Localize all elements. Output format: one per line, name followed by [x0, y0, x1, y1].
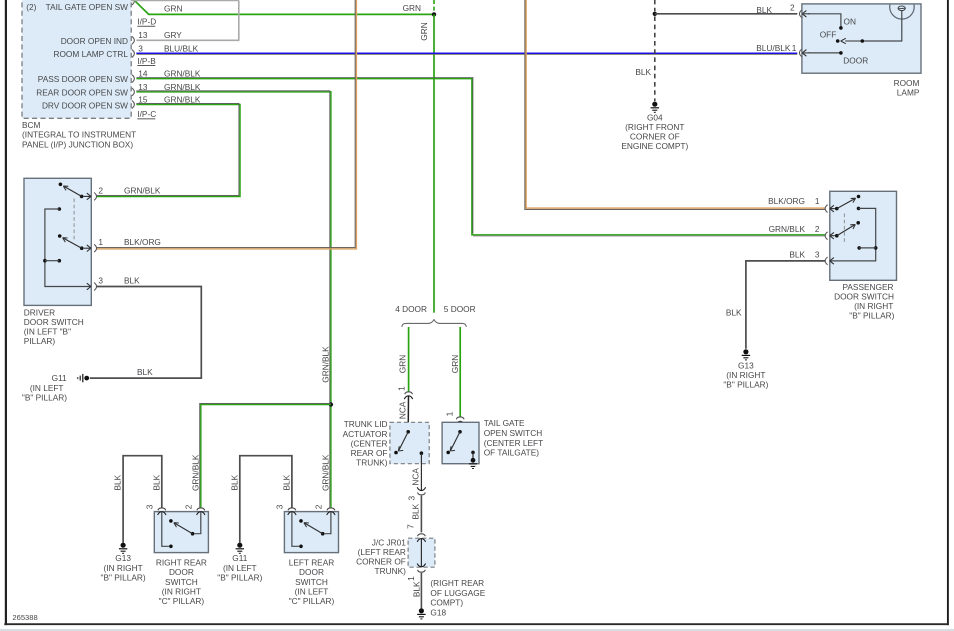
svg-text:3: 3	[815, 249, 820, 259]
svg-text:LAMP: LAMP	[897, 87, 920, 97]
TAIL GATE OPEN SWITCH box	[442, 418, 543, 463]
left rear switch internals	[292, 512, 331, 548]
svg-text:BLU/BLK: BLU/BLK	[756, 43, 791, 53]
svg-text:GRN: GRN	[419, 22, 429, 40]
svg-text:BLK: BLK	[113, 474, 123, 490]
svg-text:BLK/ORG: BLK/ORG	[124, 237, 161, 247]
svg-text:2: 2	[815, 224, 820, 234]
svg-text:OPEN SWITCH: OPEN SWITCH	[484, 428, 543, 438]
svg-text:(IN LEFT: (IN LEFT	[30, 383, 64, 393]
svg-text:GRN: GRN	[403, 3, 421, 13]
svg-text:2: 2	[314, 504, 324, 509]
svg-text:1: 1	[98, 237, 103, 247]
RIGHT REAR DOOR SWITCH box	[154, 512, 208, 606]
svg-text:LEFT REAR: LEFT REAR	[289, 558, 335, 568]
wire GRN right branch (5 door) to tail gate open switch	[450, 327, 460, 417]
BCM pin 13 socket (REAR DOOR OPEN SW)	[132, 82, 201, 96]
wire GRN junction down to 4/5 door brace	[419, 14, 434, 312]
svg-text:1: 1	[406, 576, 416, 581]
svg-text:(IN RIGHT: (IN RIGHT	[854, 301, 893, 311]
svg-text:4 DOOR: 4 DOOR	[395, 304, 427, 314]
svg-text:I/P-D: I/P-D	[137, 17, 156, 27]
passenger switch pole 1: contacts and arm	[835, 195, 860, 211]
svg-text:2: 2	[184, 504, 194, 509]
svg-text:PILLAR): PILLAR)	[24, 336, 56, 346]
svg-text:REAR OF: REAR OF	[351, 448, 388, 458]
passenger switch pin 1 connector	[768, 196, 835, 213]
svg-text:(IN LEFT: (IN LEFT	[223, 563, 257, 573]
svg-text:BLK: BLK	[756, 5, 772, 15]
svg-text:BLK: BLK	[124, 275, 140, 285]
svg-text:I/P-C: I/P-C	[137, 109, 156, 119]
wire GRN/BLK: BCM pin 15 to driver door switch pin 2	[97, 103, 241, 196]
svg-text:1: 1	[397, 386, 407, 391]
connector I/P-C label	[137, 109, 156, 119]
wire BLU/BLK: BCM pin 3 to room lamp pin 1	[136, 53, 797, 54]
ground G13 (right C pillar area)	[101, 543, 146, 583]
driver switch pin 3 connector	[87, 275, 140, 290]
wire NCA: actuator to inline connector	[411, 453, 422, 490]
wire BLK/ORG: from top edge down to passenger door switch pin 1	[525, 0, 826, 209]
wire GRN: BCM tail gate pin to junction at top	[135, 1, 433, 14]
wire BLK dashed above junction (top right)	[654, 0, 656, 11]
svg-text:ROOM: ROOM	[894, 78, 920, 88]
svg-text:GRN: GRN	[397, 355, 407, 373]
svg-text:DOOR SWITCH: DOOR SWITCH	[834, 291, 894, 301]
svg-text:BLK: BLK	[789, 249, 805, 259]
svg-text:GRN/BLK: GRN/BLK	[190, 454, 200, 491]
room lamp contact ON	[839, 16, 856, 29]
wire BLK: right rear pin 3 to ground G13	[113, 456, 162, 543]
svg-text:BLK: BLK	[726, 308, 742, 318]
svg-text:DOOR: DOOR	[299, 567, 324, 577]
BCM pin 14 socket (PASS DOOR OPEN SW)	[132, 69, 201, 83]
ground G04	[621, 102, 688, 152]
trunk lid actuator pin 1 connector	[397, 386, 413, 432]
svg-text:BCM: BCM	[22, 120, 41, 130]
room lamp contact DOOR	[839, 51, 868, 66]
connector I/P-D label	[137, 17, 156, 27]
svg-text:GRN: GRN	[164, 3, 182, 13]
brace for 4/5 door split	[402, 320, 467, 327]
svg-text:ENGINE COMPT): ENGINE COMPT)	[621, 141, 688, 151]
4 DOOR / 5 DOOR split labels	[395, 304, 475, 314]
wire GRN/BLK: BCM pin 14 to passenger door switch pin 2	[136, 78, 825, 237]
passenger switch pole 2: contacts, arm, bus	[830, 207, 878, 261]
left rear switch pin 2 connector	[314, 504, 336, 515]
svg-text:13: 13	[138, 30, 148, 40]
svg-text:"C" PILLAR): "C" PILLAR)	[159, 596, 205, 606]
svg-text:J/C JR01: J/C JR01	[372, 537, 407, 547]
driver switch pin 1 connector	[84, 237, 161, 252]
svg-text:GRN/BLK: GRN/BLK	[769, 224, 806, 234]
wire BLK/ORG: driver door switch pin 1 up to top edge	[97, 0, 357, 249]
LEFT REAR DOOR SWITCH box	[284, 512, 338, 606]
svg-text:G11: G11	[52, 373, 67, 383]
svg-text:(INTEGRAL TO INSTRUMENT: (INTEGRAL TO INSTRUMENT	[22, 130, 136, 140]
TRUNK LID ACTUATOR box	[343, 419, 430, 467]
BCM pin TAIL GATE OPEN SW socket	[132, 0, 134, 5]
wire GRN dashed continuation above junction	[433, 0, 435, 12]
svg-text:"C" PILLAR): "C" PILLAR)	[289, 596, 335, 606]
right rear switch internals	[162, 512, 201, 548]
wire BLK: J/C JR01 to ground G18	[411, 573, 421, 609]
svg-text:PASSENGER: PASSENGER	[842, 282, 893, 292]
J/C JR01 internal bus with arrows	[417, 538, 425, 567]
room lamp switch wiring	[808, 14, 902, 53]
svg-text:(IN RIGHT: (IN RIGHT	[726, 370, 765, 380]
right rear switch pin 3 connector	[145, 504, 167, 515]
svg-text:DRIVER: DRIVER	[24, 307, 55, 317]
svg-text:"B" PILLAR): "B" PILLAR)	[849, 311, 894, 321]
J/C JR01 pin 1 connector	[406, 570, 425, 581]
wire BLK dashed: junction down to ground G04	[635, 16, 654, 101]
svg-text:265388: 265388	[12, 613, 37, 622]
svg-text:1: 1	[792, 43, 797, 53]
svg-text:GRN/BLK: GRN/BLK	[320, 454, 330, 491]
svg-text:COMPT): COMPT)	[430, 598, 463, 608]
svg-text:CORNER OF: CORNER OF	[630, 132, 680, 142]
svg-text:TRUNK): TRUNK)	[375, 566, 407, 576]
svg-text:TRUNK): TRUNK)	[356, 458, 388, 468]
svg-text:I/P-B: I/P-B	[137, 56, 156, 66]
svg-text:3: 3	[145, 504, 155, 509]
svg-text:(CENTER: (CENTER	[351, 438, 388, 448]
svg-text:7: 7	[406, 524, 416, 529]
svg-text:BLU/BLK: BLU/BLK	[164, 43, 199, 53]
svg-text:PASS DOOR OPEN SW: PASS DOOR OPEN SW	[38, 74, 128, 84]
BCM pin 13 socket (DOOR OPEN IND)	[132, 30, 182, 44]
svg-text:3: 3	[138, 43, 143, 53]
tail gate open switch pin 1 connector	[444, 411, 464, 431]
svg-text:5 DOOR: 5 DOOR	[444, 304, 476, 314]
driver switch pin 2 connector	[84, 185, 161, 200]
room lamp pin 2 connector	[756, 3, 810, 18]
svg-text:DOOR: DOOR	[169, 567, 194, 577]
svg-text:"B" PILLAR): "B" PILLAR)	[101, 572, 146, 582]
svg-text:DOOR: DOOR	[843, 56, 868, 66]
svg-text:GRY: GRY	[164, 30, 182, 40]
node: GRN junction	[432, 12, 436, 16]
svg-text:NCA: NCA	[397, 401, 407, 419]
svg-text:ACTUATOR: ACTUATOR	[343, 429, 388, 439]
svg-text:2: 2	[790, 3, 795, 13]
svg-text:DOOR OPEN IND: DOOR OPEN IND	[61, 36, 128, 46]
svg-text:GRN/BLK: GRN/BLK	[124, 185, 161, 195]
svg-text:DRV DOOR OPEN SW: DRV DOOR OPEN SW	[42, 100, 128, 110]
svg-text:(2): (2)	[26, 2, 36, 12]
BCM pin 3 socket (ROOM LAMP CTRL)	[132, 43, 199, 57]
svg-text:OFF: OFF	[820, 30, 837, 40]
svg-text:BLK: BLK	[635, 67, 651, 77]
svg-text:SWITCH: SWITCH	[295, 577, 328, 587]
svg-text:PANEL (I/P) JUNCTION BOX): PANEL (I/P) JUNCTION BOX)	[22, 139, 133, 149]
wire BLK: left rear pin 3 to ground G11	[229, 456, 292, 543]
PASSENGER DOOR SWITCH box	[830, 191, 897, 320]
svg-text:(CENTER LEFT: (CENTER LEFT	[484, 438, 543, 448]
svg-text:BLK/ORG: BLK/ORG	[768, 196, 805, 206]
passenger switch pin 2 connector	[769, 224, 835, 240]
svg-text:CORNER OF: CORNER OF	[356, 557, 406, 567]
wire BLK: passenger pin 3 to ground G13	[726, 261, 825, 349]
svg-text:RIGHT REAR: RIGHT REAR	[156, 558, 207, 568]
svg-text:(RIGHT FRONT: (RIGHT FRONT	[625, 122, 684, 132]
ROOM LAMP box	[802, 4, 921, 98]
wire GRY: BCM pin 13 up to top edge	[131, 1, 239, 41]
room lamp contact OFF	[820, 30, 864, 43]
svg-text:BLK: BLK	[229, 474, 239, 490]
BCM (integral to I/P junction box)	[22, 0, 131, 118]
J/C JR01 pin 7 connector	[418, 534, 426, 536]
node: BLK junction top right	[653, 12, 657, 16]
svg-text:(IN RIGHT: (IN RIGHT	[162, 586, 201, 596]
BCM caption	[22, 120, 136, 150]
svg-text:3: 3	[98, 275, 103, 285]
svg-text:G18: G18	[430, 607, 446, 617]
trunk lid actuator switch	[394, 430, 423, 455]
svg-text:BLK: BLK	[281, 474, 291, 490]
wire BLK: junction to room lamp pin 2	[655, 13, 798, 15]
connector I/P-B label	[137, 56, 156, 66]
DRIVER DOOR SWITCH box	[24, 178, 92, 346]
svg-text:REAR DOOR OPEN SW: REAR DOOR OPEN SW	[36, 88, 128, 98]
right rear switch pin 2 connector	[184, 504, 206, 515]
wire GRN left branch (4 door) to trunk lid actuator	[397, 327, 408, 391]
svg-text:"B" PILLAR): "B" PILLAR)	[22, 392, 67, 402]
inline connector (male above, female below)	[406, 487, 425, 500]
driver switch pole 2: contacts, arm, bus	[43, 207, 91, 286]
J/C JR01 box	[356, 537, 435, 576]
svg-text:3: 3	[275, 504, 285, 509]
svg-text:G04: G04	[647, 112, 663, 122]
svg-text:(IN RIGHT: (IN RIGHT	[104, 563, 143, 573]
tail gate switch internal ground	[469, 452, 477, 468]
driver switch pole 1: contact and arm	[59, 183, 84, 199]
wire GRN/BLK: BCM pin 13 to rear door switches (vertical bus)	[136, 91, 331, 508]
svg-text:(IN LEFT: (IN LEFT	[295, 586, 329, 596]
svg-text:G11: G11	[232, 553, 247, 563]
driver switch mechanical link (dashed)	[73, 199, 75, 241]
room lamp pin 1 connector	[756, 43, 810, 57]
svg-text:DOOR SWITCH: DOOR SWITCH	[24, 317, 84, 327]
wire BLK: driver pin 3 to ground G11	[90, 287, 202, 379]
passenger switch pin 3 connector	[789, 249, 834, 264]
passenger switch mechanical link (dashed)	[843, 214, 845, 244]
svg-text:NCA: NCA	[411, 468, 421, 486]
svg-text:TAIL GATE: TAIL GATE	[484, 418, 525, 428]
svg-text:BLK: BLK	[137, 367, 153, 377]
svg-text:1: 1	[815, 196, 820, 206]
BCM pin 15 socket (DRV DOOR OPEN SW)	[132, 95, 201, 109]
svg-text:"B" PILLAR): "B" PILLAR)	[723, 380, 768, 390]
svg-text:BLK: BLK	[411, 503, 421, 519]
ground G13 (right B pillar)	[723, 349, 768, 389]
svg-text:G13: G13	[738, 360, 754, 370]
svg-text:(LEFT REAR: (LEFT REAR	[358, 547, 406, 557]
svg-text:(RIGHT REAR: (RIGHT REAR	[430, 578, 484, 588]
room lamp bulb	[890, 5, 914, 26]
svg-text:TAIL GATE OPEN SW: TAIL GATE OPEN SW	[46, 2, 129, 12]
svg-text:"B" PILLAR): "B" PILLAR)	[217, 572, 262, 582]
svg-text:2: 2	[98, 185, 103, 195]
wire BLK: inline connector to J/C JR01 pin 7	[406, 496, 422, 533]
svg-text:ON: ON	[844, 16, 856, 26]
svg-text:BLK: BLK	[151, 474, 161, 490]
svg-text:1: 1	[444, 411, 454, 416]
wire GRN/BLK branch to right rear door switch pin 2	[190, 403, 331, 507]
svg-text:(IN LEFT "B": (IN LEFT "B"	[24, 327, 71, 337]
ground G18	[417, 578, 486, 619]
tail gate switch contacts and arm	[446, 430, 474, 454]
svg-text:G13: G13	[115, 553, 131, 563]
svg-text:ROOM LAMP CTRL: ROOM LAMP CTRL	[53, 49, 128, 59]
ground G11 (left B pillar)	[22, 373, 89, 402]
svg-text:3: 3	[406, 496, 416, 501]
svg-text:OF TAILGATE): OF TAILGATE)	[484, 448, 540, 458]
svg-text:GRN/BLK: GRN/BLK	[320, 346, 330, 383]
svg-text:OF LUGGAGE: OF LUGGAGE	[430, 588, 485, 598]
svg-text:GRN: GRN	[450, 355, 460, 373]
ground G11 (left C pillar area)	[217, 543, 262, 583]
left rear switch pin 3 connector	[275, 504, 297, 515]
node: GRN/BLK junction above rear switches	[329, 402, 333, 406]
svg-text:BLK: BLK	[411, 581, 421, 597]
svg-text:SWITCH: SWITCH	[165, 577, 198, 587]
svg-text:TRUNK LID: TRUNK LID	[344, 419, 388, 429]
